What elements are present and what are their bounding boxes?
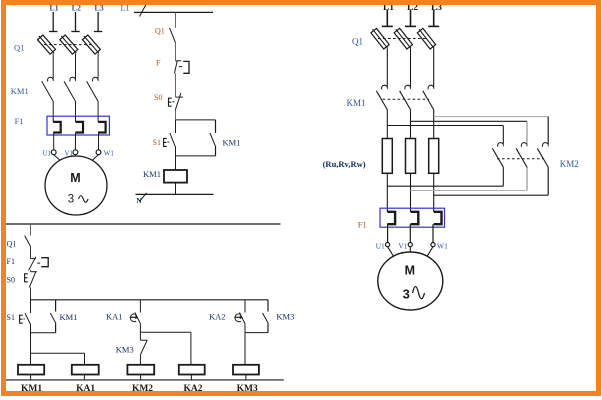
svg-text:3: 3 [403,287,410,302]
relay contact KA2 NO (bottom circuit) [244,300,246,313]
wire KM2 pole 1 return to phase 1 below resistor [502,168,504,187]
svg-text:F1: F1 [358,219,367,229]
motor M 3-phase (left circuit) [45,156,107,215]
wire S1 to KM1 coil (bottom circuit) [30,325,32,365]
svg-text:S1: S1 [7,313,15,322]
wire KM1 to F1 phase 1 (left circuit) [52,102,54,122]
svg-text:KM1: KM1 [223,137,241,147]
svg-text:S0: S0 [7,275,15,284]
starting resistor Rv (right circuit) [406,139,416,174]
wire L1 to Q1 (middle circuit) [175,12,177,28]
terminal U1 (right motor) [386,243,390,247]
auxiliary contact KM1 NO (middle circuit seal-in) [215,120,217,133]
wire tap to KA1 coil (bottom circuit) [31,352,85,354]
terminal V1 (left motor) [73,150,78,155]
svg-text:V1: V1 [398,241,407,250]
wire resistor to F1 phase 3 (right circuit) [433,173,435,212]
thermal relay F NC contact (middle circuit) [176,60,182,62]
wire KM1 to resistor R phase 3 (right circuit) [433,110,435,139]
wire KM1 to resistor R phase 1 (right circuit) [386,110,388,139]
coil KM2 (bottom circuit) [127,365,154,375]
svg-text:W1: W1 [437,241,448,250]
wire KM1 contact to S1 branch join (bottom circuit) [31,332,56,334]
contactor KM2 bypass contact pole 2 [521,143,527,147]
F1 heater element phase 2 (left circuit) [76,122,84,133]
KM1 mechanical linkage (dashed, right circuit) [383,98,429,100]
wire Q1 to KM1 phase 2 (left circuit) [75,53,77,78]
wire Q1 to KM1 phase 2 (right circuit) [410,48,412,86]
wire KM2 pole 3 return to phase 3 below resistor [547,168,549,196]
wire L3 supply stub (left circuit) [97,12,99,32]
svg-text:Q1: Q1 [7,239,17,248]
motor leads (left motor) [54,155,61,161]
svg-text:KM1: KM1 [60,312,78,322]
auxiliary contact KM3 NC interlock (bottom circuit) [139,332,141,340]
svg-text:M: M [70,171,80,185]
auxiliary contact KM3 NO seal-in (bottom circuit) [267,300,269,312]
wire Q1 to F (middle circuit) [175,43,177,61]
switch Q1 contact (middle circuit) [170,28,176,43]
wire KM1 to F1 phase 2 (left circuit) [75,102,77,122]
terminal V1 (right motor) [408,243,412,247]
svg-text:KM2: KM2 [560,159,579,169]
F1 heater element phase 1 (right circuit) [387,212,395,224]
starting resistor Ru (right circuit) [382,139,392,174]
wire L1 rail (middle control circuit) [134,11,213,13]
circuit breaker Q1 pole 3 (left circuit, fuse-switch) [82,35,100,54]
wire supply rail (bottom control circuit top line) [6,223,281,225]
svg-text:KM1: KM1 [143,169,161,179]
F1 heater element phase 3 (left circuit) [98,122,106,133]
coil KM1 (middle circuit) [164,170,187,183]
wire KM1 to resistor R phase 2 (right circuit) [410,110,412,139]
svg-text:(Ru,Rv,Rw): (Ru,Rv,Rw) [323,159,366,169]
auxiliary contact KM1 NO (bottom circuit seal-in) [55,300,57,312]
svg-text:S0: S0 [154,93,162,102]
wire resistor to F1 phase 2 (right circuit) [410,173,412,212]
L1 rail break slash (middle circuit) [140,4,147,17]
svg-text:3: 3 [68,194,74,206]
contactor KM1 main contact pole 3 (right circuit) [428,85,434,89]
F1 heater element phase 3 (right circuit) [434,212,442,224]
F1 heater element phase 2 (right circuit) [411,212,419,224]
contactor KM2 bypass contact pole 1 [498,143,504,147]
coil KA1 (bottom circuit) [72,365,99,375]
wire to KM3 coil (bottom circuit) [244,333,246,365]
wire L2 supply stub (right circuit) [410,10,412,27]
wire bypass top phase 3 to KM2 pole 3 (gray) [434,116,549,118]
svg-text:KM1: KM1 [347,98,366,108]
svg-text:F: F [156,59,161,68]
svg-text:KM3: KM3 [116,344,134,354]
wire L1 supply stub (left circuit) [52,12,54,32]
terminal W1 (left motor) [96,150,101,155]
wire Q1 to KM1 phase 1 (right circuit) [386,48,388,86]
circuit breaker Q1 pole 2 (right circuit, fuse-switch) [394,28,412,49]
circuit breaker Q1 pole 2 (left circuit, fuse-switch) [60,35,78,54]
wire Q1 to F1 (bottom circuit) [30,246,32,258]
svg-text:F1: F1 [7,257,15,266]
wire bypass top phase 2 to KM2 pole 2 [411,120,528,122]
pushbutton S1 NO (middle circuit) [175,120,177,133]
coil KA2 (bottom circuit) [179,365,205,375]
circuit breaker Q1 pole 1 (right circuit, fuse-switch) [371,28,389,49]
Q1 mechanical linkage (dashed, right circuit) [378,38,426,40]
wire branch top (middle circuit) [176,119,216,121]
wire L3 supply stub (right circuit) [433,10,435,27]
wire F1 to terminal (right circuit phase 2) [409,224,411,242]
wire control rail (bottom circuit) [31,299,269,301]
wire KM3 contact join (bottom circuit) [245,332,268,334]
thermal overload relay F1 enclosure (right circuit, blue box) [380,208,445,227]
wire F1 to terminal (right circuit phase 3) [432,224,434,242]
circuit breaker Q1 pole 1 (left circuit, fuse-switch) [38,35,56,54]
circuit breaker Q1 pole 3 (right circuit, fuse-switch) [417,28,435,49]
contactor KM2 bypass contact pole 3 [542,143,548,147]
pushbutton S0 NC (middle circuit) [176,96,183,98]
coil KM1 (bottom circuit) [18,365,44,375]
KM2 mechanical linkage (dashed) [497,158,543,160]
wire to KM1 coil (middle circuit) [175,156,177,170]
N rail break slash (middle circuit) [140,193,147,202]
contactor KM1 main contact pole 1 (left circuit) [47,77,53,81]
motor leads (right motor) [388,247,395,258]
wire Q1 to KM1 phase 3 (right circuit) [433,48,435,86]
wire F1 to terminal (left circuit phase 1) [53,133,55,150]
wire L2 supply stub (left circuit) [75,12,77,32]
wire F1 to terminal (left circuit phase 2) [74,133,76,150]
contactor KM1 main contact pole 1 (right circuit) [382,85,388,89]
svg-text:KM1: KM1 [11,86,29,96]
svg-text:F1: F1 [15,116,24,126]
terminal W1 (right motor) [431,243,435,247]
wire rail to Q1 (bottom circuit) [30,224,32,236]
svg-text:Q1: Q1 [14,43,24,53]
wire KM1 to F1 phase 3 (left circuit) [97,102,99,122]
svg-text:U1: U1 [376,241,385,250]
svg-text:N: N [136,196,142,205]
wire branch bottom (middle circuit) [176,155,216,157]
contactor KM1 main contact pole 2 (right circuit) [405,85,411,89]
svg-text:W1: W1 [104,150,115,158]
pushbutton S0 NC (bottom circuit) [31,271,37,273]
relay contact KA1 NO (bottom circuit) [139,300,141,313]
wire KM2 pole 2 return to phase 2 below resistor (gray) [526,168,528,191]
starting resistor Rw (right circuit) [429,139,439,174]
svg-text:KA1: KA1 [106,311,123,321]
svg-text:KM3: KM3 [276,311,294,321]
Q1 mechanical linkage (dashed, left circuit) [44,44,92,46]
wire KA1 node to KA2 coil feed (bottom circuit) [140,331,191,333]
thermal overload relay F1 enclosure (left circuit, blue box) [47,116,109,135]
wire neutral rail (bottom circuit) [6,379,284,381]
wire S0 to branch node (middle circuit) [175,110,177,120]
wire resistor to F1 phase 1 (right circuit) [386,173,388,212]
coil KM3 (bottom circuit) [233,365,259,375]
wire L1 supply stub (right circuit) [386,10,388,27]
svg-text:Q1: Q1 [352,37,363,47]
wire F1 to S0 (bottom circuit) [30,270,32,271]
wire F1 to terminal (right circuit phase 1) [387,224,389,242]
terminal U1 (left motor) [51,150,56,155]
wire bypass top phase 1 to KM2 pole 1 [387,125,503,127]
pushbutton S1 NO (bottom circuit) [30,300,32,313]
svg-text:S1: S1 [153,138,161,147]
svg-text:KA2: KA2 [209,311,226,321]
wire Q1 to KM1 phase 3 (left circuit) [97,53,99,78]
wire KM1 coil to N (middle circuit) [175,183,177,195]
wire Q1 to KM1 phase 1 (left circuit) [52,53,54,78]
wire F1 to terminal (left circuit phase 3) [98,133,100,150]
svg-text:Q1: Q1 [155,27,165,36]
motor M 3-phase (right circuit) [378,252,443,310]
svg-text:U1: U1 [42,150,51,158]
wire S0 to rail (bottom circuit) [30,287,32,299]
contactor KM1 main contact pole 2 (left circuit) [70,77,76,81]
F1 heater element phase 1 (left circuit) [53,122,61,133]
switch Q1 contact (bottom circuit) [25,236,31,247]
contactor KM1 main contact pole 3 (left circuit) [92,77,98,81]
svg-text:M: M [405,264,415,278]
wire F to S0 (middle circuit) [175,73,177,97]
thermal relay F1 NC contact (bottom circuit) [31,258,36,260]
